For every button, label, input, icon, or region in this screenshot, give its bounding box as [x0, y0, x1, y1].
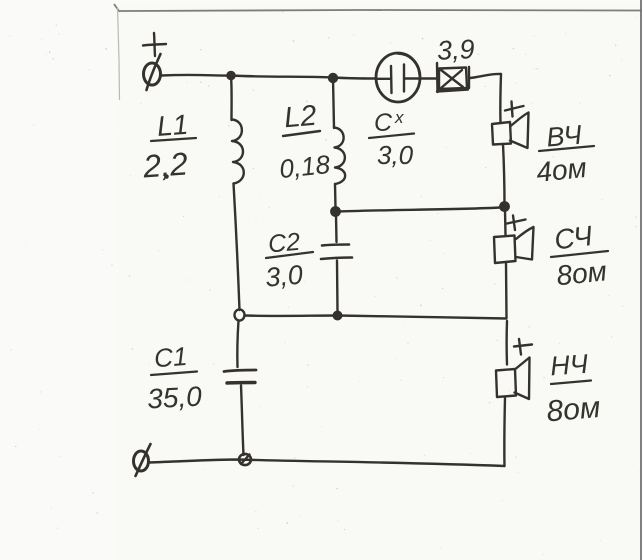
svg-text:C: C	[374, 109, 393, 137]
wire C2 to lower rail	[336, 261, 339, 313]
svg-text:0,18: 0,18	[278, 149, 332, 184]
svg-text:L2: L2	[283, 100, 318, 135]
label CЧ speaker	[553, 220, 609, 291]
underline CЧ	[551, 251, 608, 257]
underline HЧ	[551, 381, 591, 385]
wire right rail BЧ to junction	[503, 144, 505, 206]
svg-text:НЧ: НЧ	[549, 349, 589, 382]
svg-text:L1: L1	[156, 109, 189, 142]
underline BЧ	[539, 146, 594, 151]
wire L2 to junction	[334, 184, 337, 208]
ink blot near 2,2 comma	[164, 174, 169, 179]
capacitor CX (circle symbol)	[376, 53, 420, 102]
capacitor C2	[322, 245, 349, 246]
wire bottom rail	[149, 460, 505, 467]
wire fuse to right corner	[470, 74, 501, 78]
svg-text:35,0: 35,0	[146, 381, 202, 415]
bottom terminal	[134, 451, 149, 471]
wire lower horizontal rail	[245, 316, 507, 319]
svg-text:C1: C1	[153, 341, 188, 373]
svg-text:4ом: 4ом	[535, 152, 588, 188]
wire right rail HЧ to bottom corner	[503, 397, 506, 466]
svg-text:СЧ: СЧ	[553, 220, 594, 255]
label HЧ speaker	[545, 349, 602, 429]
svg-text:8ом: 8ом	[545, 391, 602, 429]
underline C2	[266, 252, 313, 258]
open node circle left	[235, 309, 245, 320]
wire mid horizontal to right rail	[339, 208, 501, 212]
wire C1 to bottom rail	[241, 386, 244, 456]
svg-text:2,2: 2,2	[141, 145, 189, 184]
wire node to C1	[237, 321, 238, 368]
svg-text:3,0: 3,0	[264, 260, 304, 293]
plus terminal mark top-left	[143, 44, 166, 46]
node junction right mid	[500, 202, 508, 210]
node junction mid	[331, 207, 339, 215]
capacitor C1	[224, 370, 256, 372]
node junction L1 top	[227, 72, 234, 79]
inductor L1 coil	[230, 76, 233, 121]
underline L1	[151, 138, 196, 141]
label BЧ speaker	[535, 120, 588, 188]
wire junction to C2	[335, 215, 338, 242]
junction circle bottom	[239, 454, 251, 465]
label C2	[264, 228, 304, 293]
label L1	[141, 109, 189, 185]
paper left edge	[118, 7, 120, 100]
node junction L2 top	[329, 74, 337, 82]
speaker CЧ plus	[507, 220, 526, 224]
speaker HЧ plus	[514, 345, 532, 347]
wire L1 to lower node	[234, 184, 240, 311]
underline L2	[283, 131, 320, 136]
svg-text:8ом: 8ом	[555, 255, 608, 291]
node junction lower mid	[334, 312, 342, 320]
fuse/resistor 3,9 box	[436, 63, 439, 92]
wire right rail CЧ to lower junction	[505, 263, 508, 318]
wire right rail down to BЧ speaker	[499, 74, 502, 122]
wire right rail to HЧ speaker	[505, 321, 508, 365]
speaker BЧ plus	[505, 106, 524, 111]
label CX	[374, 108, 414, 170]
speaker BЧ	[492, 122, 511, 145]
svg-text:3,9: 3,9	[436, 34, 475, 66]
wire CX to fuse	[420, 77, 438, 79]
svg-text:3,0: 3,0	[377, 140, 414, 170]
label L2	[278, 100, 332, 184]
scanner right edge	[640, 0, 642, 560]
underline CX	[369, 134, 414, 139]
label C1	[146, 341, 202, 414]
speaker HЧ	[496, 369, 516, 397]
svg-text:x: x	[394, 108, 404, 127]
inductor L2 coil	[333, 78, 334, 128]
speaker CЧ	[494, 236, 516, 264]
wire top rail	[161, 75, 376, 79]
paper top edge	[114, 4, 642, 11]
wire right rail to CЧ speaker	[504, 210, 507, 235]
underline C1	[151, 372, 197, 376]
input terminal top-left	[144, 63, 161, 85]
